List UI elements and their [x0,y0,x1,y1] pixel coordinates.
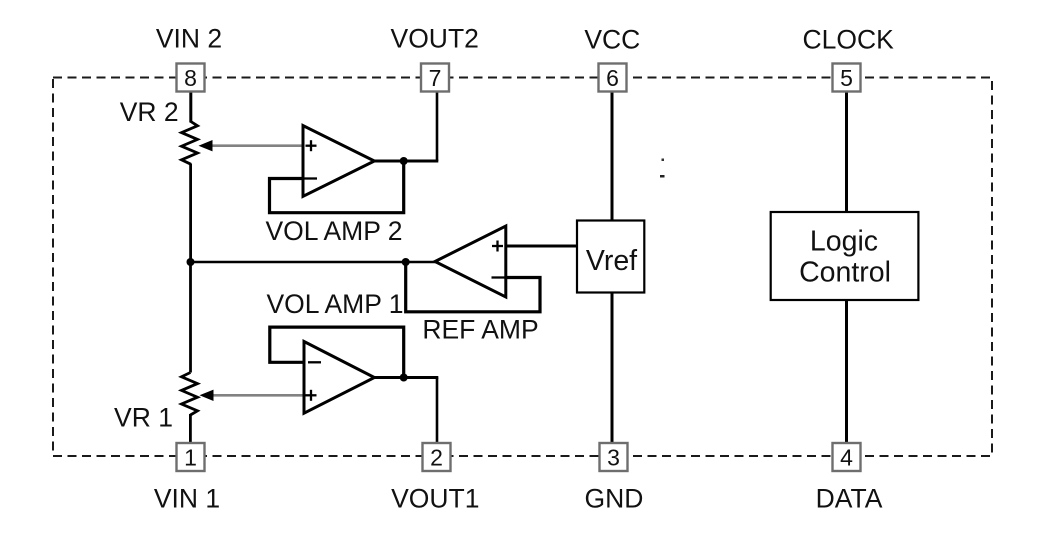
junction node at VOL AMP 1 output [400,374,408,382]
potentiometer VR2 [182,122,198,165]
VR1 wiper arrow [200,390,306,401]
VOL AMP 2 feedback wire [270,162,404,213]
svg-text:8: 8 [184,65,197,91]
potentiometer VR1 [182,373,198,416]
VOL AMP 1 output wire [373,376,438,379]
svg-text:CLOCK: CLOCK [803,25,895,55]
pin 2 [423,443,451,471]
label VOL AMP 1 [267,289,404,319]
Vref box [577,221,644,293]
wire VOL AMP 2 output to pin7 [436,91,439,161]
wire pin6 to Vref box [611,91,614,221]
svg-text:Logic: Logic [810,226,878,258]
VOL AMP 1 feedback wire [270,327,404,377]
IC boundary dashed border [53,78,992,457]
svg-text:GND: GND [585,484,644,514]
wire Logic Control box to pin4 [845,300,848,444]
pin 7 [421,64,449,92]
junction node at center tap [187,258,195,266]
label GND [585,484,644,514]
Logic Control box [771,212,919,300]
op-amp VOL AMP 2 [303,126,374,197]
pin 5 [833,64,861,92]
svg-text:7: 7 [429,65,442,91]
wire center node to VR1 top [189,262,192,373]
pin 4 [833,443,861,471]
label VCC [584,25,640,55]
wire REF AMP plus input to Vref [506,245,578,248]
junction node at REF AMP output [402,258,410,266]
junction node at VOL AMP 2 output [400,157,408,165]
svg-text:Control: Control [799,257,891,289]
svg-text:VIN 1: VIN 1 [154,484,220,514]
svg-text:VOL AMP 1: VOL AMP 1 [267,289,404,319]
VOL AMP 2 plus input symbol [306,140,317,151]
op-amp VOL AMP 1 [304,342,374,414]
wire Vref box to pin3 [611,293,614,445]
REF AMP feedback wire [406,262,540,312]
VOL AMP 2 minus input symbol [304,177,317,179]
label VOL AMP 2 [266,216,403,246]
svg-text:Vref: Vref [586,245,637,277]
REF AMP plus input symbol [492,241,503,252]
wire VR1 bottom to pin1 [189,414,192,444]
svg-text:VR 2: VR 2 [120,97,179,127]
label CLOCK [803,25,895,55]
svg-text:VOL AMP 2: VOL AMP 2 [266,216,403,246]
VOL AMP 1 plus input symbol [306,390,317,401]
label REF AMP [422,315,538,345]
label VIN 2 [156,23,222,53]
label VR 1 [114,403,173,433]
svg-text:VOUT1: VOUT1 [391,484,479,514]
wire pin5 to Logic Control box [845,91,848,212]
label VOUT1 [391,484,479,514]
wire VOL AMP 1 output to pin2 [436,378,439,445]
svg-text:4: 4 [840,445,853,471]
label DATA [816,484,883,514]
pin 3 [600,443,628,471]
op-amp REF AMP [435,226,506,297]
svg-text:VR 1: VR 1 [114,403,173,433]
svg-text:VCC: VCC [584,25,640,55]
svg-text:6: 6 [606,65,619,91]
svg-text:5: 5 [840,65,853,91]
svg-text:2: 2 [430,445,443,471]
wire VR2 bottom to center node [189,164,192,263]
VOL AMP 2 output wire [373,160,438,163]
pin 1 [177,443,205,471]
svg-text:3: 3 [607,445,620,471]
svg-text:VIN 2: VIN 2 [156,23,222,53]
VR2 wiper arrow [199,140,305,151]
svg-text:DATA: DATA [816,484,883,514]
stray colon mark [660,159,665,178]
pin 6 [599,64,627,92]
wire center node to REF AMP output [191,261,438,263]
VOL AMP 1 minus input symbol [308,361,321,363]
svg-text:VOUT2: VOUT2 [391,23,479,53]
wire pin8 to VR2 top [189,91,192,123]
pin 8 [177,64,205,92]
label VR 2 [120,97,179,127]
svg-text:1: 1 [184,445,197,471]
svg-text:REF AMP: REF AMP [422,315,538,345]
label VIN 1 [154,484,220,514]
REF AMP minus input symbol [492,276,505,278]
label VOUT2 [391,23,479,53]
